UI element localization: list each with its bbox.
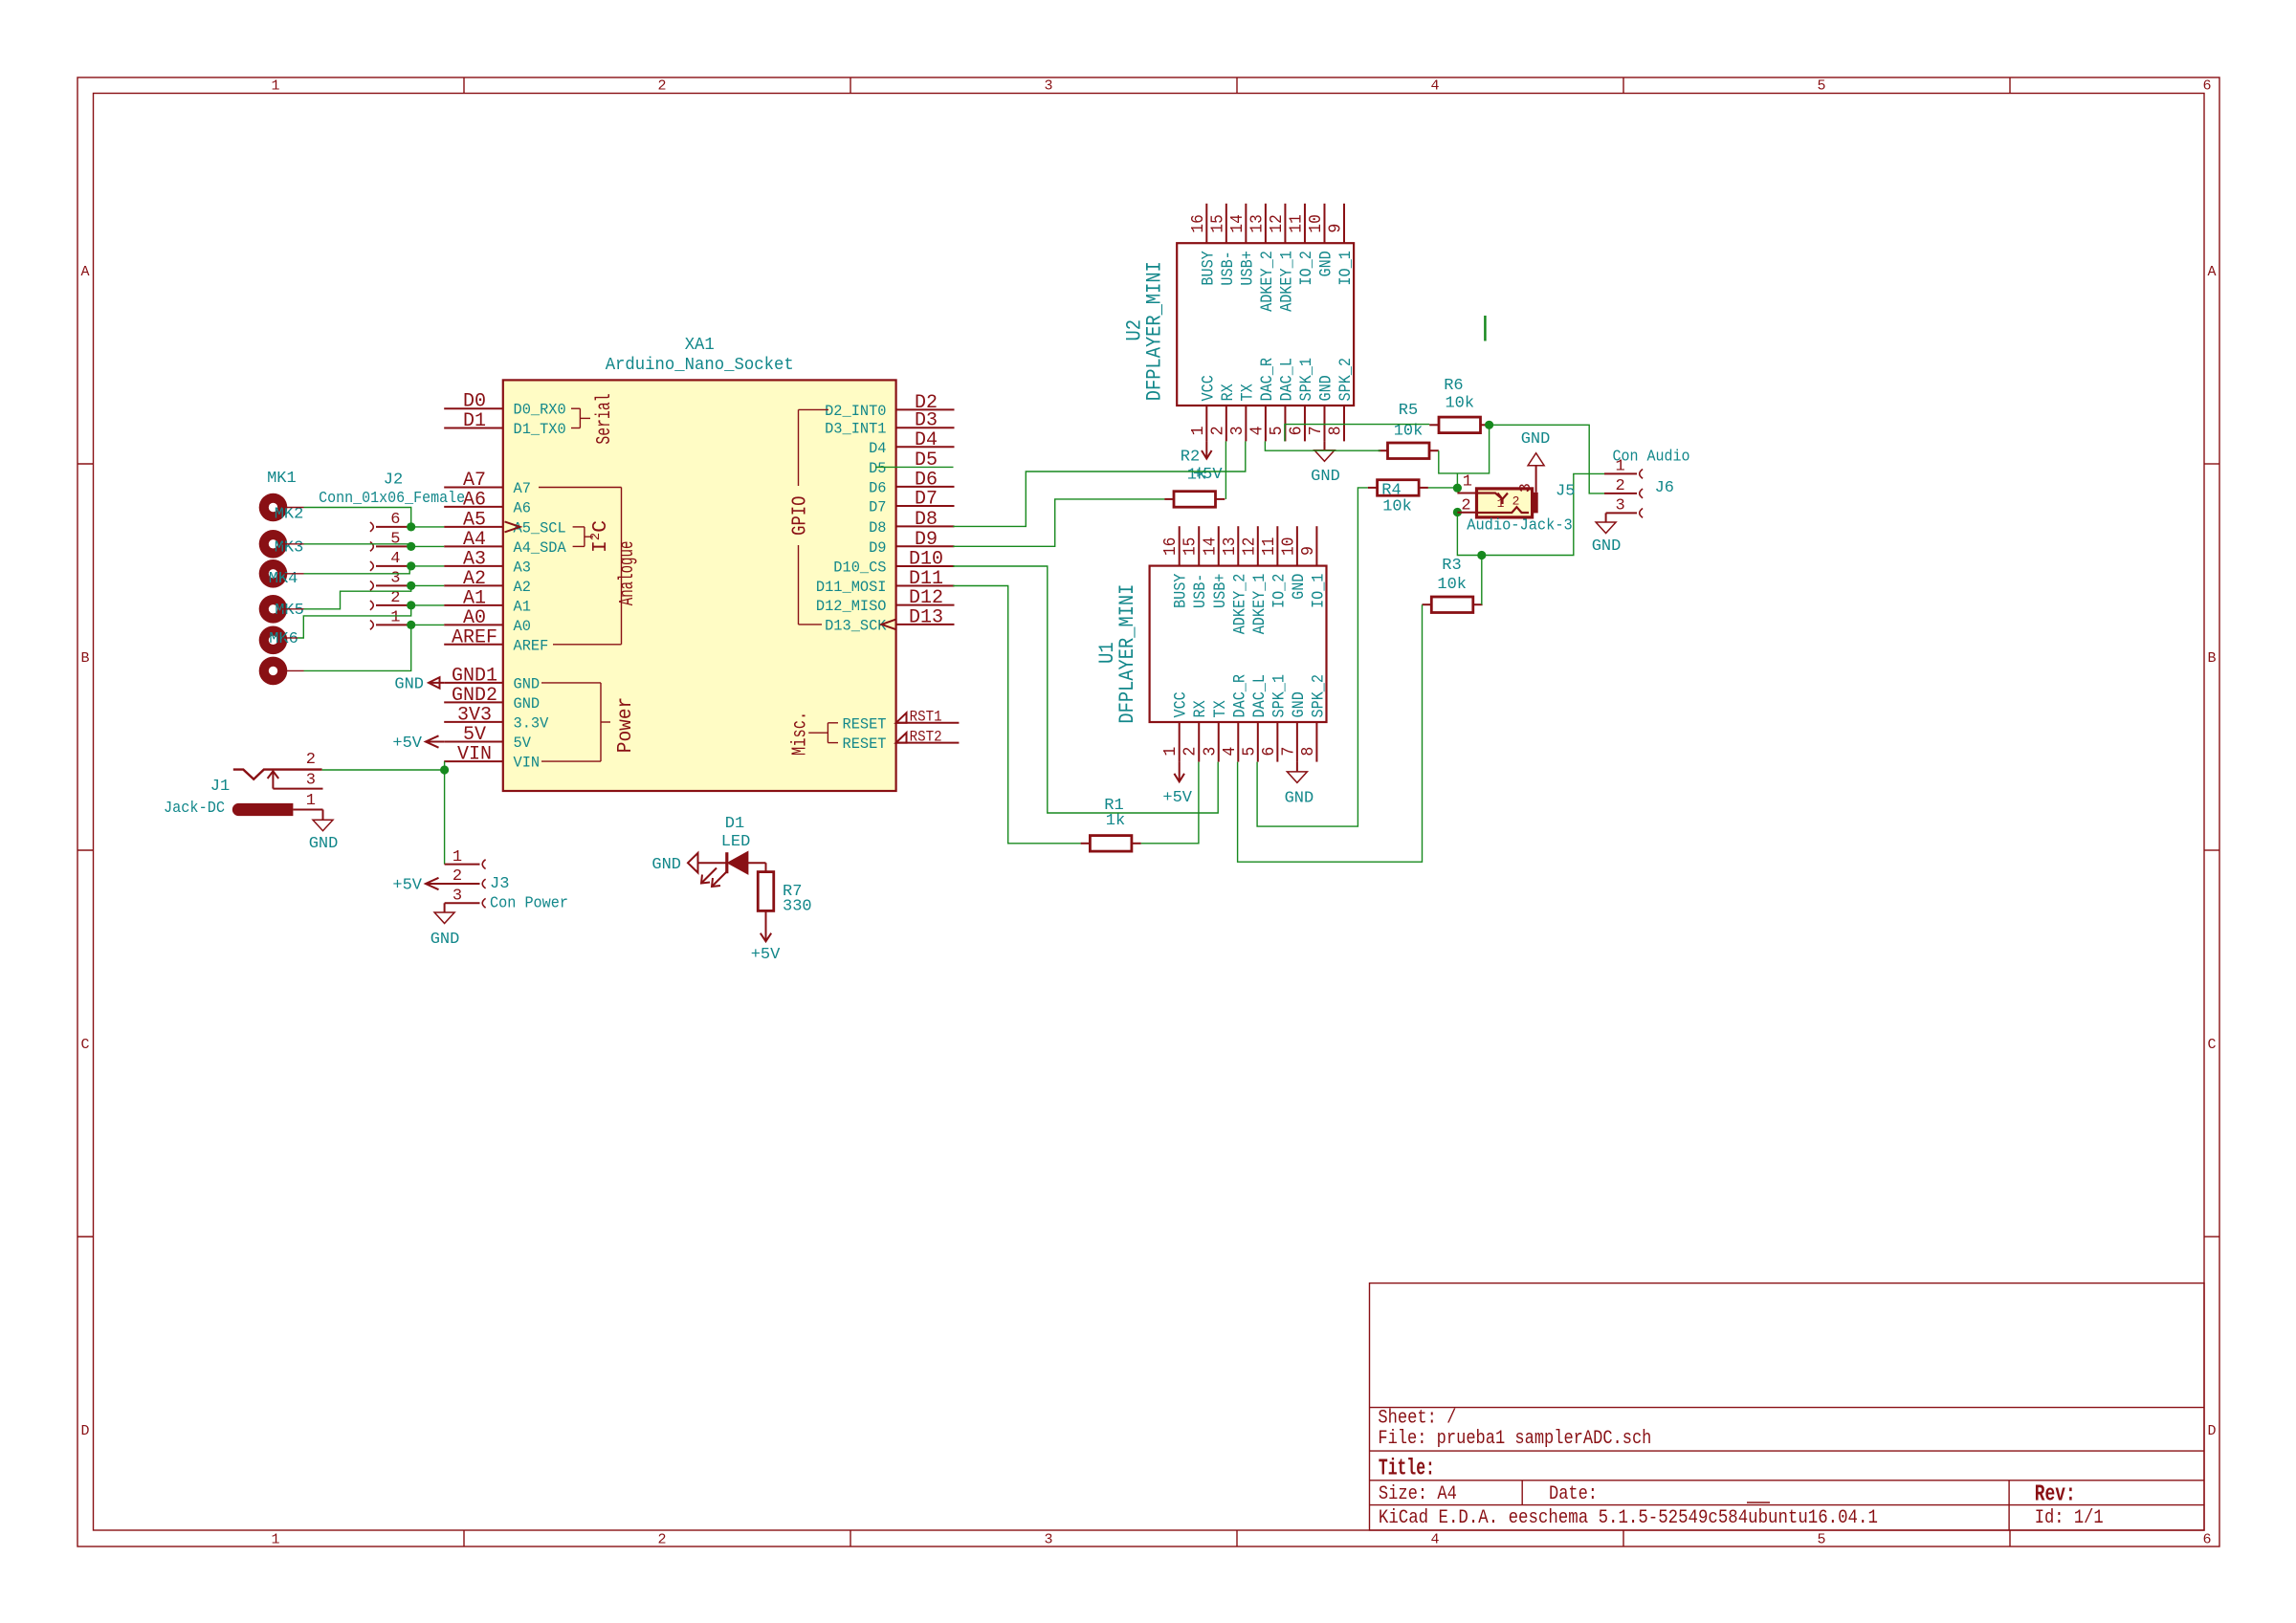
- svg-text:10k: 10k: [1382, 497, 1412, 515]
- svg-text:D1: D1: [725, 815, 744, 833]
- svg-text:A7: A7: [514, 480, 531, 497]
- mounting pad MK4: [259, 595, 288, 624]
- svg-text:D: D: [2207, 1423, 2216, 1439]
- resistor R2 1k: [1164, 492, 1225, 508]
- pin GND (left GND2): [444, 685, 540, 713]
- svg-text:AREF: AREF: [452, 626, 497, 648]
- GND symbol at LED D1: [651, 853, 697, 874]
- svg-text:1: 1: [271, 1532, 279, 1548]
- svg-text:RX: RX: [1191, 700, 1210, 718]
- J5 pin 2 stub: [1457, 512, 1476, 514]
- svg-text:A6: A6: [514, 499, 531, 516]
- svg-text:MK2: MK2: [275, 506, 304, 524]
- svg-text:A: A: [2207, 264, 2216, 280]
- svg-text:MK3: MK3: [275, 539, 304, 558]
- svg-text:J5: J5: [1556, 483, 1575, 501]
- Serial group bracket: [571, 408, 590, 428]
- I2C group bracket: [573, 527, 593, 547]
- MK4 pad pin stub: [282, 608, 304, 610]
- svg-text:11: 11: [1260, 537, 1279, 556]
- wire MK1 pad to J2 pin 6 / A5: [304, 508, 411, 527]
- svg-text:2: 2: [1461, 497, 1470, 515]
- DFPlayer U1 body: [1150, 566, 1327, 722]
- U2 pin 5 (DAC_L): [1268, 358, 1297, 441]
- wire MK3 pad to J2 pin 4 / A3: [304, 566, 410, 574]
- svg-text:B: B: [80, 650, 89, 667]
- wire U2 DAC_L pin 5 to R6: [1285, 425, 1429, 442]
- +5V power label at 5V pin: [392, 735, 444, 753]
- pin 3.3V (left 3V3): [444, 704, 548, 732]
- U2 pin 4 (DAC_R): [1247, 358, 1277, 442]
- MK5 pad pin stub: [282, 637, 298, 639]
- wire R4 left down to U1 DAC_L pin 5: [1257, 488, 1368, 826]
- svg-text:3: 3: [390, 569, 400, 587]
- J2 pin 6: [370, 511, 411, 532]
- svg-text:D13: D13: [909, 606, 943, 628]
- +5V symbol below R7: [751, 933, 781, 964]
- GND symbol above J5 pin 3: [1521, 430, 1551, 493]
- svg-text:D2_INT0: D2_INT0: [825, 403, 886, 420]
- connector J3 labels: [490, 875, 568, 913]
- U2 pin 15 (USB-): [1208, 204, 1238, 286]
- pin D10_CS (right D10): [833, 549, 954, 577]
- svg-text:Jack-DC: Jack-DC: [164, 800, 225, 818]
- svg-text:Audio-Jack-3: Audio-Jack-3: [1467, 516, 1573, 535]
- svg-text:GND: GND: [1290, 574, 1309, 600]
- svg-text:IO_2: IO_2: [1297, 251, 1316, 285]
- pin D5 (right D5): [869, 450, 938, 477]
- svg-text:330: 330: [783, 898, 812, 916]
- svg-text:USB-: USB-: [1191, 574, 1210, 608]
- svg-text:D11_MOSI: D11_MOSI: [816, 579, 887, 596]
- svg-text:9: 9: [1299, 546, 1318, 556]
- svg-text:2: 2: [1615, 477, 1624, 495]
- wire D9 to R2: [953, 499, 1164, 546]
- svg-text:D1_TX0: D1_TX0: [514, 421, 566, 438]
- svg-text:GND: GND: [1290, 691, 1309, 717]
- svg-text:1: 1: [1463, 473, 1472, 492]
- MK2 pad pin stub: [282, 543, 304, 545]
- svg-text:1: 1: [306, 792, 316, 810]
- U1 pin 1 (VCC): [1161, 691, 1191, 761]
- svg-text:VIN: VIN: [457, 744, 492, 766]
- svg-text:D3_INT1: D3_INT1: [825, 421, 886, 438]
- svg-text:5V: 5V: [463, 724, 486, 746]
- svg-text:3.3V: 3.3V: [514, 714, 549, 732]
- svg-text:Title:: Title:: [1379, 1457, 1435, 1482]
- svg-text:12: 12: [1268, 214, 1287, 232]
- svg-text:D9: D9: [869, 539, 886, 557]
- svg-text:DAC_L: DAC_L: [1277, 358, 1296, 402]
- svg-text:A6: A6: [463, 489, 486, 511]
- svg-text:TX: TX: [1238, 384, 1257, 402]
- wire audio junction to jack tip: [1456, 473, 1458, 488]
- svg-text:D0_RX0: D0_RX0: [514, 402, 566, 419]
- svg-text:SPK_1: SPK_1: [1269, 674, 1289, 718]
- svg-text:MK6: MK6: [269, 630, 298, 648]
- U1 pin 15 (USB-): [1181, 526, 1211, 608]
- svg-text:D9: D9: [915, 529, 938, 551]
- U2 pin 1 (VCC): [1189, 375, 1219, 441]
- J2 pin 5: [370, 530, 411, 551]
- pin GND (left GND1): [444, 665, 540, 692]
- svg-text:9: 9: [1327, 224, 1346, 233]
- svg-text:12: 12: [1240, 537, 1259, 556]
- wire U2 DAC_R pin 4 to R5: [1265, 441, 1380, 450]
- wire junction J2 pin 1: [407, 621, 415, 629]
- U1 pin 2 (RX): [1181, 700, 1211, 762]
- U1 pin 11 (IO_2): [1260, 526, 1290, 608]
- svg-text:3: 3: [1615, 497, 1624, 515]
- wire junction J2 pin 4: [407, 561, 415, 570]
- svg-text:4: 4: [1430, 1532, 1439, 1548]
- svg-text:1: 1: [453, 848, 462, 866]
- U1 pin 13 (ADKEY_2): [1221, 526, 1250, 634]
- wire audio out junction down to R3: [1481, 556, 1483, 605]
- audio jack J5 body: [1477, 489, 1533, 517]
- U2 pin 11 (IO_2): [1287, 204, 1316, 286]
- svg-text:J6: J6: [1655, 479, 1674, 497]
- svg-text:Id: 1/1: Id: 1/1: [2035, 1507, 2104, 1529]
- svg-text:10: 10: [1279, 537, 1298, 556]
- svg-text:5: 5: [1817, 1532, 1825, 1548]
- svg-text:2: 2: [657, 78, 666, 95]
- wire junction J2 pin 2: [407, 601, 415, 609]
- svg-text:Size: A4: Size: A4: [1379, 1483, 1457, 1505]
- wire MK4 pad to J2 pin 3 / A2: [304, 585, 411, 608]
- U2 pin 12 (ADKEY_1): [1268, 204, 1297, 312]
- mounting pad MK5: [259, 626, 288, 655]
- wire D5 stub: [875, 466, 953, 468]
- svg-text:VIN: VIN: [514, 755, 541, 772]
- svg-text:16: 16: [1161, 537, 1181, 556]
- svg-text:BUSY: BUSY: [1199, 251, 1218, 286]
- svg-text:D8: D8: [869, 519, 886, 537]
- svg-text:Con Power: Con Power: [490, 895, 568, 913]
- U1 pin 9 (IO_1): [1299, 526, 1329, 608]
- svg-text:Power: Power: [614, 697, 637, 754]
- wire J2 pin3 to A2: [411, 584, 445, 586]
- svg-text:USB+: USB+: [1211, 574, 1230, 608]
- svg-text:J3: J3: [490, 875, 509, 893]
- pin D0_RX0 (left D0): [444, 391, 566, 419]
- resistor R5 10k: [1379, 443, 1439, 459]
- pin RESET RST1: [843, 709, 960, 734]
- svg-text:6: 6: [2202, 78, 2211, 95]
- U2 pin 6 (SPK_1): [1287, 358, 1316, 441]
- pin D3_INT1 (right D3): [825, 410, 954, 438]
- U1 reference and value: [1095, 584, 1139, 724]
- svg-text:1: 1: [271, 78, 279, 95]
- mounting pad MK6: [259, 657, 288, 686]
- resistor R1 1k: [1081, 836, 1141, 852]
- frame column labels: [271, 78, 2211, 1548]
- svg-text:15: 15: [1181, 537, 1201, 556]
- svg-text:+5V: +5V: [392, 735, 422, 753]
- J2 pin 4: [370, 550, 411, 571]
- svg-text:10k: 10k: [1437, 576, 1467, 594]
- pin A5 input clamp: [505, 521, 520, 532]
- svg-text:R5: R5: [1399, 402, 1418, 420]
- U2 pin 16 (BUSY): [1189, 204, 1219, 286]
- title block date underline mark: [1747, 1502, 1770, 1503]
- MK3 pad pin stub: [282, 573, 304, 575]
- pin D6 (right D6): [869, 469, 954, 496]
- svg-text:15: 15: [1208, 214, 1227, 232]
- mounting pad MK2: [259, 530, 288, 559]
- pin D13 input clamp: [882, 620, 896, 630]
- svg-text:A0: A0: [514, 618, 531, 635]
- pin D2_INT0 (right D2): [825, 392, 954, 420]
- svg-text:Sheet: /: Sheet: /: [1378, 1408, 1456, 1430]
- svg-text:+5V: +5V: [1162, 789, 1192, 807]
- wire junction at jack pin 2: [1453, 508, 1462, 516]
- wire junction audio out: [1477, 551, 1486, 559]
- svg-text:GND: GND: [1316, 251, 1336, 276]
- svg-text:6: 6: [1287, 426, 1306, 435]
- J2 pin 2: [370, 589, 411, 610]
- wire VIN junction down to J3 pin 1: [444, 770, 446, 865]
- frame row labels: [80, 264, 2216, 1439]
- wire J2 pin4 to A3: [409, 565, 444, 567]
- svg-text:BUSY: BUSY: [1172, 573, 1191, 608]
- svg-text:1: 1: [1161, 747, 1181, 757]
- U2 pin 7 (GND): [1307, 375, 1336, 441]
- XA1 reference and value: [606, 336, 794, 375]
- J5 ring contact: [1477, 507, 1530, 513]
- wire J2 pin6 to A5: [411, 526, 445, 528]
- Analogue group bracket: [539, 488, 622, 645]
- svg-text:File: prueba1 samplerADC.sch: File: prueba1 samplerADC.sch: [1378, 1428, 1651, 1450]
- wire junction J2 pin 5: [407, 542, 415, 551]
- svg-text:C: C: [2207, 1037, 2216, 1053]
- wire J2 pin1 to A0: [411, 624, 445, 625]
- svg-text:5: 5: [1268, 426, 1287, 435]
- MK6 pad pin stub: [282, 669, 304, 671]
- +5V symbol at U1 pin 1: [1162, 762, 1192, 807]
- svg-text:8: 8: [1327, 426, 1346, 435]
- J2 pin 3: [370, 569, 411, 590]
- svg-text:+5V: +5V: [392, 877, 422, 895]
- GND symbol at U2 pin 7: [1311, 441, 1340, 486]
- wire D11 to R1: [953, 586, 1081, 844]
- wire junction VIN: [440, 765, 449, 774]
- svg-text:RST2: RST2: [910, 728, 942, 745]
- svg-text:4: 4: [390, 550, 400, 568]
- svg-text:3: 3: [1517, 483, 1535, 493]
- MK1 pad pin stub: [282, 507, 304, 509]
- svg-text:GND: GND: [1316, 375, 1336, 401]
- svg-text:RESET: RESET: [843, 715, 887, 733]
- svg-text:ADKEY_1: ADKEY_1: [1277, 251, 1296, 312]
- svg-text:7: 7: [1279, 747, 1298, 757]
- svg-text:D4: D4: [915, 429, 938, 451]
- svg-text:MK5: MK5: [275, 602, 304, 620]
- wire junction J2 pin 6: [407, 522, 415, 531]
- GPIO group bracket: [799, 409, 829, 625]
- svg-text:D7: D7: [915, 489, 938, 511]
- wire junction J2 pin 3: [407, 581, 415, 590]
- svg-text:D7: D7: [869, 499, 886, 516]
- GND symbol at J1: [309, 810, 339, 854]
- svg-text:ADKEY_1: ADKEY_1: [1250, 574, 1269, 635]
- svg-text:Conn_01x06_Female: Conn_01x06_Female: [319, 490, 465, 508]
- svg-text:SPK_2: SPK_2: [1309, 674, 1328, 718]
- J6 pin 3: [1606, 497, 1644, 518]
- svg-text:GND: GND: [394, 676, 424, 694]
- svg-text:VCC: VCC: [1172, 691, 1191, 717]
- wire R3 left down to U1 DAC_R pin 4: [1238, 604, 1423, 862]
- resistor R3 10k: [1423, 597, 1483, 613]
- resistor R7 330: [758, 863, 774, 941]
- svg-text:MK4: MK4: [269, 570, 298, 588]
- mounting pad MK3: [259, 559, 288, 588]
- svg-text:13: 13: [1247, 214, 1267, 232]
- svg-text:D8: D8: [915, 509, 938, 531]
- svg-text:USB+: USB+: [1238, 251, 1257, 285]
- pin D11_MOSI (right D11): [816, 568, 955, 596]
- svg-text:1: 1: [390, 608, 400, 626]
- wire audio out to J6 pin 1: [1482, 473, 1604, 555]
- resistor R6 10k: [1429, 417, 1490, 433]
- connector J1 Jack-DC labels: [164, 778, 230, 818]
- resistor R4 10k: [1368, 480, 1428, 496]
- svg-text:2: 2: [453, 867, 462, 886]
- pin D1_TX0 (left D1): [444, 410, 566, 438]
- pin RESET RST2: [843, 728, 960, 753]
- pin VIN (left VIN): [444, 744, 540, 772]
- svg-text:10: 10: [1307, 214, 1326, 232]
- svg-text:D13_SCK: D13_SCK: [825, 617, 887, 634]
- wire R4 to jack pin 1 junction: [1428, 487, 1458, 489]
- wire MK6 pad to J2 pin 1 / A0: [304, 625, 411, 670]
- mounting pad MK1: [259, 493, 288, 522]
- connector J2 labels: [319, 472, 465, 509]
- svg-text:A2: A2: [514, 579, 531, 596]
- svg-text:GND: GND: [514, 695, 541, 713]
- svg-text:ADKEY_2: ADKEY_2: [1230, 574, 1249, 635]
- svg-text:2: 2: [1512, 494, 1520, 509]
- wire junction at jack pin 1: [1453, 484, 1462, 493]
- svg-text:RX: RX: [1219, 384, 1238, 402]
- svg-text:KiCad E.D.A. eeschema 5.1.5-5: KiCad E.D.A. eeschema 5.1.5-52549c584ubu…: [1379, 1507, 1878, 1529]
- svg-text:3: 3: [1044, 78, 1052, 95]
- J3 pin 2 with +5V label: [392, 867, 485, 894]
- svg-text:A1: A1: [514, 598, 531, 615]
- svg-text:13: 13: [1221, 537, 1240, 556]
- J3 pin 3: [445, 888, 486, 909]
- pin A4_SDA (left A4): [444, 529, 566, 557]
- svg-text:SPK_2: SPK_2: [1336, 358, 1356, 402]
- svg-text:SPK_1: SPK_1: [1297, 358, 1316, 402]
- svg-text:ADKEY_2: ADKEY_2: [1258, 251, 1277, 312]
- LED D1: [699, 852, 766, 887]
- wire R6 junction to J6 pin 2: [1490, 425, 1604, 493]
- svg-text:Arduino_Nano_Socket: Arduino_Nano_Socket: [606, 356, 794, 375]
- U1 pin 12 (ADKEY_1): [1240, 526, 1269, 634]
- U2 pin 10 (GND): [1307, 204, 1336, 277]
- U1 pin 14 (USB+): [1201, 526, 1230, 608]
- svg-text:4: 4: [1430, 78, 1439, 95]
- svg-text:LED: LED: [721, 833, 751, 851]
- svg-text:4: 4: [1247, 426, 1267, 435]
- DFPlayer U2 body: [1177, 243, 1354, 406]
- svg-text:IO_1: IO_1: [1336, 251, 1356, 285]
- Misc group bracket: [808, 723, 838, 743]
- svg-text:D: D: [80, 1423, 89, 1439]
- svg-text:2: 2: [1208, 426, 1227, 435]
- title block frame: [1370, 1283, 2205, 1530]
- wire VIN pin connection: [444, 761, 446, 770]
- svg-text:DAC_R: DAC_R: [1230, 674, 1249, 718]
- svg-text:B: B: [2207, 650, 2216, 667]
- svg-text:D10_CS: D10_CS: [833, 559, 886, 577]
- svg-text:+5V: +5V: [751, 946, 781, 964]
- svg-text:D5: D5: [869, 460, 886, 477]
- svg-text:10k: 10k: [1445, 395, 1474, 413]
- U1 pin 6 (SPK_1): [1260, 674, 1290, 762]
- J1 tip contact pin 2: [233, 751, 322, 779]
- svg-text:10k: 10k: [1394, 423, 1424, 441]
- svg-text:GND: GND: [514, 675, 541, 692]
- svg-text:14: 14: [1201, 537, 1220, 556]
- GND symbol at J6 pin 3: [1592, 513, 1622, 556]
- wire R2 to U2 RX pin 2: [1225, 441, 1226, 499]
- svg-text:1: 1: [1189, 426, 1208, 435]
- svg-text:3: 3: [1044, 1532, 1052, 1548]
- svg-text:3: 3: [453, 888, 462, 906]
- Power group bracket: [541, 683, 610, 761]
- svg-text:IO_2: IO_2: [1269, 574, 1289, 608]
- wire R5 output down: [1439, 425, 1490, 473]
- svg-text:DAC_L: DAC_L: [1250, 674, 1269, 718]
- svg-text:A3: A3: [514, 559, 531, 576]
- +5V symbol at U2 pin 1: [1193, 441, 1223, 484]
- pin A3 (left A3): [444, 548, 531, 576]
- J6 pin 1: [1604, 458, 1643, 479]
- svg-text:RST1: RST1: [910, 709, 942, 726]
- J3 pin 1: [445, 848, 486, 869]
- J1 sleeve pin 1: [232, 792, 323, 816]
- svg-text:GND: GND: [1592, 537, 1622, 556]
- pin A0 (left A0): [444, 607, 531, 635]
- svg-text:DAC_R: DAC_R: [1258, 358, 1277, 402]
- U2 pin 14 (USB+): [1228, 204, 1258, 286]
- svg-text:XA1: XA1: [685, 336, 715, 355]
- GND symbol at U1 pin 7: [1285, 762, 1314, 808]
- pin D13_SCK (right D13): [825, 606, 954, 634]
- svg-text:R3: R3: [1442, 557, 1461, 575]
- svg-text:5: 5: [390, 530, 400, 548]
- pin A7 (left A7): [444, 470, 531, 497]
- svg-text:6: 6: [1260, 747, 1279, 757]
- svg-text:Analogue: Analogue: [616, 541, 639, 606]
- svg-text:A4_SDA: A4_SDA: [514, 539, 567, 557]
- wire MK5 pad to J2 pin 2 / A1: [298, 605, 411, 638]
- U1 pin 16 (BUSY): [1161, 526, 1191, 608]
- svg-text:Rev:: Rev:: [2035, 1481, 2076, 1507]
- J1 switch arrow pin 3: [268, 771, 323, 789]
- U1 pin 5 (DAC_L): [1240, 674, 1269, 762]
- svg-text:R2: R2: [1181, 449, 1200, 467]
- J2 pin 1: [370, 608, 411, 629]
- svg-text:Date:: Date:: [1549, 1483, 1598, 1505]
- svg-text:4: 4: [1221, 747, 1240, 757]
- U2 pin 8 (SPK_2): [1327, 358, 1357, 441]
- svg-text:GPIO: GPIO: [789, 496, 812, 536]
- svg-text:5: 5: [1817, 78, 1825, 95]
- J5 sleeve bar: [1532, 493, 1537, 514]
